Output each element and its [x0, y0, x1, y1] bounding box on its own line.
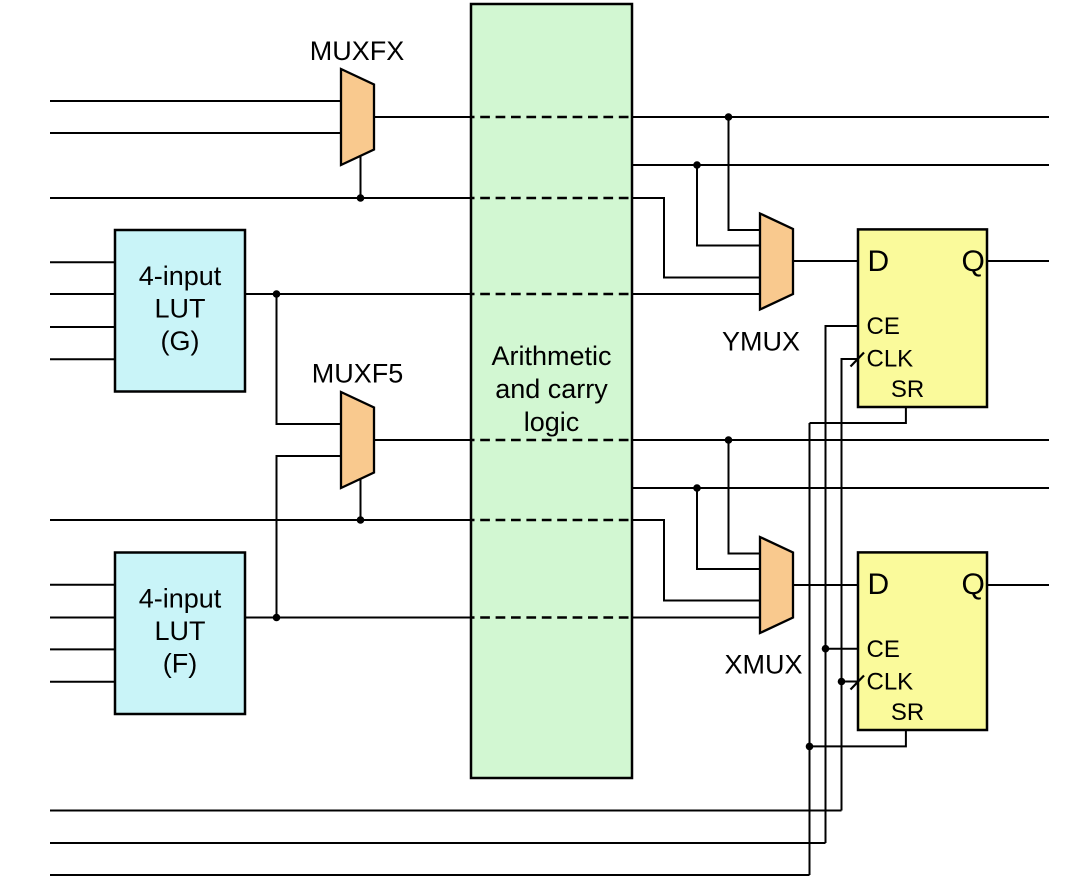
svg-text:SR: SR [891, 376, 924, 403]
svg-text:CLK: CLK [867, 669, 914, 696]
mux XMUX [724, 537, 802, 680]
wire select row into carry block [50, 197, 471, 199]
svg-text:SR: SR [891, 699, 924, 726]
node FF2 CE tap [822, 645, 830, 653]
wire MUXF5 input 2 from LUT F output [277, 456, 342, 618]
svg-text:(G): (G) [161, 326, 200, 356]
node LUT F output join [273, 614, 281, 622]
wire: dashed net rows through carry block [471, 117, 632, 618]
wire MUXFX input 1 [50, 100, 341, 102]
wire YMUX input 3 from carry block [632, 198, 760, 278]
svg-text:XMUX: XMUX [724, 650, 802, 680]
svg-text:and carry: and carry [495, 374, 608, 404]
wire net row y488 right of carry block [632, 487, 1049, 489]
wire YMUX input 2 drop [697, 165, 760, 246]
wire bottom control net SR [50, 874, 810, 876]
wire LUT G output down to MUXF5 input 1 [277, 294, 342, 424]
wire LUT G inputs [50, 261, 115, 263]
flip-flop FF1 [851, 229, 988, 407]
svg-text:LUT: LUT [154, 294, 205, 324]
wire top net row right of carry block [632, 116, 1049, 118]
mux MUXFX [310, 36, 405, 165]
wire CLK riser [842, 359, 859, 811]
svg-text:MUXF5: MUXF5 [312, 359, 404, 389]
wire XMUX input 2 drop [697, 488, 760, 569]
wire XMUX input 3 from carry block [632, 520, 760, 601]
svg-text:D: D [868, 245, 890, 278]
wire LUT F output to carry block [245, 617, 471, 619]
wire MUXFX input 2 [50, 132, 341, 134]
wire XMUX input 4 from carry block [632, 617, 760, 619]
node row488 tap [693, 484, 701, 492]
svg-text:LUT: LUT [154, 616, 205, 646]
node FF2 SR tap [806, 743, 814, 751]
wire XMUX input 1 drop [729, 440, 761, 554]
svg-text:CE: CE [867, 313, 900, 340]
wire YMUX output to FF1 D [793, 260, 858, 262]
flip-flop FF2 [851, 552, 988, 730]
svg-text:Q: Q [962, 568, 985, 601]
FF2 clock slash [851, 676, 865, 690]
svg-text:MUXFX: MUXFX [310, 36, 405, 66]
wire FF2 CE branch [826, 648, 859, 650]
wire FF2 CLK branch [842, 681, 859, 683]
wire YMUX input 4 from carry block [632, 293, 760, 295]
wire net row y440 right of carry block [632, 439, 1049, 441]
svg-text:D: D [868, 568, 890, 601]
svg-text:Arithmetic: Arithmetic [491, 341, 611, 371]
wire second net row right of carry block [632, 164, 1049, 166]
node row440 tap [725, 436, 733, 444]
wire MUXFX output to carry block [374, 116, 471, 118]
svg-text:4-input: 4-input [139, 261, 222, 291]
node row117 tap [725, 113, 733, 121]
wire select row 2 into carry block [50, 519, 471, 521]
mux YMUX [722, 214, 800, 357]
FF1 clock slash [851, 353, 865, 367]
svg-text:4-input: 4-input [139, 583, 222, 613]
wire SR riser [809, 423, 811, 875]
svg-text:CLK: CLK [867, 346, 914, 373]
wire XMUX output to FF2 D [793, 584, 858, 586]
LUT F [115, 553, 245, 715]
wire LUT G output to carry block [245, 293, 471, 295]
wire bottom control net CE [50, 842, 826, 844]
wire CE riser [826, 326, 859, 843]
wire YMUX input 1 drop [729, 117, 761, 230]
wire FF1 Q output [987, 260, 1049, 262]
node LUT G output join [273, 290, 281, 298]
block: arithmetic and carry logic [471, 4, 632, 778]
wire LUT F inputs [50, 584, 115, 586]
wire bottom control net CLK [50, 810, 842, 812]
svg-text:logic: logic [524, 407, 580, 437]
wire FF1 SR pin to riser [810, 407, 906, 423]
svg-text:CE: CE [867, 636, 900, 663]
node row165 tap [693, 161, 701, 169]
wire FF2 Q output [987, 584, 1049, 586]
wire MUXFX select stub [360, 156, 362, 198]
svg-text:(F): (F) [163, 649, 197, 679]
mux MUXF5 [312, 359, 404, 489]
node MUXFX select join [357, 194, 365, 202]
node MUXF5 select join [357, 516, 365, 524]
wire MUXF5 select stub [360, 479, 362, 520]
LUT G [115, 230, 245, 392]
svg-text:Q: Q [962, 245, 985, 278]
wire MUXF5 output to carry block [374, 439, 471, 441]
svg-text:YMUX: YMUX [722, 327, 800, 357]
wire FF2 SR pin to riser [810, 730, 906, 746]
node FF2 CLK tap [838, 678, 846, 686]
